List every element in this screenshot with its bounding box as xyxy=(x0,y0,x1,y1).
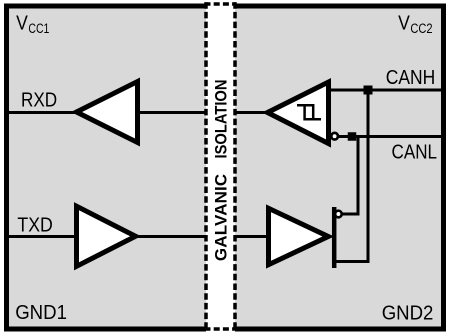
svg-text:CANH: CANH xyxy=(386,66,436,89)
svg-text:GND1: GND1 xyxy=(15,301,67,324)
svg-text:GALVANIC: GALVANIC xyxy=(211,174,230,261)
op-amp RXD buffer (left-pointing) xyxy=(77,82,138,143)
op-amp CAN receiver with hysteresis (left-pointing) xyxy=(268,82,329,144)
driver output bar xyxy=(332,207,337,268)
wire TXD input xyxy=(9,235,78,238)
wire TXD buffer output to isolation barrier xyxy=(135,235,208,238)
node junction on CANL xyxy=(348,132,357,141)
wire RXD input xyxy=(9,111,76,114)
band dashed bottom edge xyxy=(205,327,237,331)
node junction on CANH xyxy=(364,86,373,95)
bubble on receiver inverting input (CANL) xyxy=(331,133,338,140)
wire isolation barrier to driver input (node TXD2) xyxy=(233,235,269,238)
svg-text:CANL: CANL xyxy=(392,140,438,163)
wire CANH rail xyxy=(330,89,441,92)
galvanic isolation barrier band xyxy=(206,0,235,335)
wire CANH drop to driver output xyxy=(333,90,368,262)
schmitt hysteresis symbol inside receiver xyxy=(297,105,321,119)
bubble on driver inverted output (CANL) xyxy=(335,211,342,218)
svg-text:RXD: RXD xyxy=(21,89,57,112)
op-amp TXD buffer (right-pointing) xyxy=(77,206,136,266)
svg-text:TXD: TXD xyxy=(17,213,52,236)
band dashed left edge xyxy=(204,2,208,332)
op-amp CAN driver (right-pointing) xyxy=(269,208,329,264)
svg-text:GND2: GND2 xyxy=(382,302,434,325)
wire RXD buffer output to isolation barrier xyxy=(137,111,208,114)
svg-text:V: V xyxy=(398,13,410,35)
svg-text:ISOLATION: ISOLATION xyxy=(211,80,230,159)
band dashed right edge xyxy=(233,2,237,332)
wire CANL drop to driver inverted output xyxy=(341,137,358,215)
wire isolation barrier to receiver output (node RXD2) xyxy=(233,111,268,114)
svg-text:CC1: CC1 xyxy=(28,21,49,36)
wire CANL rail xyxy=(337,135,441,138)
band dashed top edge xyxy=(205,2,237,6)
svg-text:V: V xyxy=(16,13,28,35)
svg-text:CC2: CC2 xyxy=(410,21,432,36)
